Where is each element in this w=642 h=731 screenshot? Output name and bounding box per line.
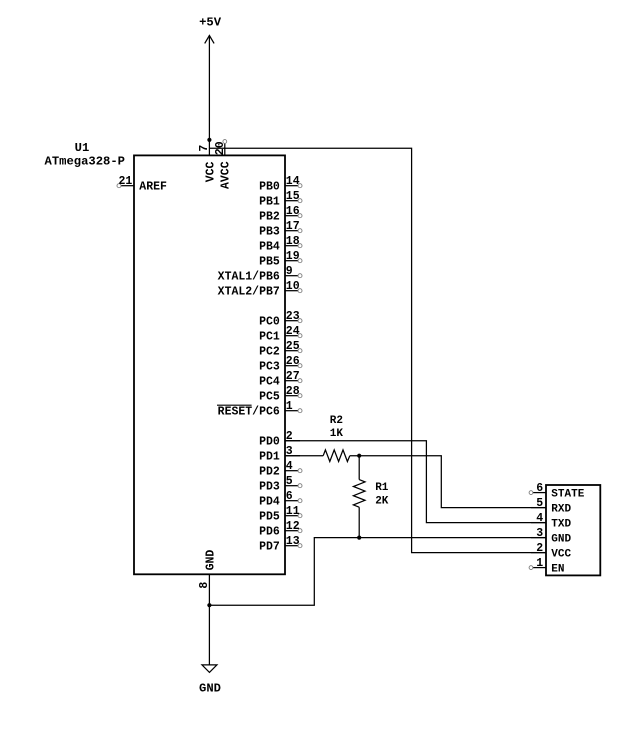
- svg-text:PD3: PD3: [259, 481, 280, 494]
- resistor R1 2K (vertical): [353, 456, 388, 538]
- svg-text:GND: GND: [551, 534, 571, 546]
- svg-text:PC2: PC2: [259, 346, 280, 359]
- pin 21 AREF (left side): [117, 175, 167, 194]
- pin 26 PC3 (right side): [259, 355, 302, 374]
- pin 9 XTAL1/PB6 (right side): [218, 265, 302, 284]
- pin 23 PC0 (right side): [259, 310, 302, 329]
- module pin 3 GND: [531, 527, 572, 546]
- svg-text:24: 24: [286, 325, 300, 338]
- svg-text:5: 5: [286, 475, 293, 488]
- pin 6 PD4 (right side): [259, 490, 302, 509]
- svg-text:XTAL1/PB6: XTAL1/PB6: [218, 271, 280, 284]
- svg-text:3: 3: [536, 527, 543, 540]
- svg-text:15: 15: [286, 190, 300, 203]
- svg-text:9: 9: [286, 265, 293, 278]
- svg-text:17: 17: [286, 220, 300, 233]
- svg-text:PC0: PC0: [259, 316, 280, 329]
- svg-text:R1: R1: [375, 482, 389, 494]
- svg-text:23: 23: [286, 310, 300, 323]
- svg-text:13: 13: [286, 535, 300, 548]
- pin 13 PD7 (right side): [259, 535, 302, 554]
- svg-text:STATE: STATE: [551, 489, 584, 501]
- svg-text:TXD: TXD: [551, 519, 571, 531]
- svg-text:GND: GND: [204, 550, 217, 571]
- svg-text:+5V: +5V: [199, 16, 222, 30]
- junction +5V node at VCC pin: [207, 138, 211, 142]
- svg-text:ATmega328-P: ATmega328-P: [45, 155, 125, 169]
- module pin 1 EN: [529, 557, 564, 576]
- svg-text:28: 28: [286, 385, 300, 398]
- svg-text:6: 6: [286, 490, 293, 503]
- svg-text:25: 25: [286, 340, 300, 353]
- svg-text:PD7: PD7: [259, 541, 280, 554]
- pin 27 PC4 (right side): [259, 370, 302, 389]
- ground symbol GND: [199, 665, 221, 695]
- wire PD0 pin 2 to module TXD pin 4: [285, 441, 546, 523]
- svg-text:PC3: PC3: [259, 361, 280, 374]
- pin 19 PB5 (right side): [259, 250, 302, 269]
- svg-text:EN: EN: [551, 564, 564, 576]
- svg-text:XTAL2/PB7: XTAL2/PB7: [218, 286, 280, 299]
- svg-text:1K: 1K: [330, 428, 344, 440]
- junction node R2-R1 divider: [357, 454, 361, 458]
- svg-text:5: 5: [536, 497, 543, 510]
- resistor R2 1K (horizontal): [323, 415, 350, 461]
- pin 24 PC1 (right side): [259, 325, 302, 344]
- svg-text:4: 4: [286, 460, 293, 473]
- svg-text:PB4: PB4: [259, 241, 280, 254]
- pin 11 PD5 (right side): [259, 505, 302, 524]
- pin 7 VCC (top side): [198, 145, 217, 183]
- pin 1 RESET/PC6 (right side): [217, 400, 302, 419]
- pin 14 PB0 (right side): [259, 175, 302, 194]
- pin 15 PB1 (right side): [259, 190, 302, 209]
- wire ground net: module GND pin 3 to U1 GND pin 8: [209, 538, 546, 606]
- module pin 4 TXD: [531, 512, 572, 531]
- pin 25 PC2 (right side): [259, 340, 302, 359]
- wire +5V node right and down to module VCC pin 2: [209, 148, 546, 552]
- svg-text:11: 11: [286, 505, 300, 518]
- svg-text:2K: 2K: [375, 495, 389, 507]
- power symbol +5V: [199, 16, 222, 63]
- svg-text:RESET/PC6: RESET/PC6: [218, 406, 280, 419]
- svg-text:PD1: PD1: [259, 451, 280, 464]
- pin 16 PB2 (right side): [259, 205, 302, 224]
- connector module body (STATE/RXD/TXD/GND/VCC/EN): [546, 485, 600, 575]
- svg-text:PD4: PD4: [259, 496, 280, 509]
- svg-text:4: 4: [536, 512, 543, 525]
- wire R2 output to module RXD pin 5: [350, 456, 546, 508]
- svg-text:AVCC: AVCC: [220, 161, 233, 189]
- svg-text:PB3: PB3: [259, 226, 280, 239]
- svg-text:1: 1: [286, 400, 293, 413]
- junction R1 bottom to ground wire: [357, 536, 361, 540]
- pin 2 PD0 (right side): [259, 430, 300, 449]
- svg-text:18: 18: [286, 235, 300, 248]
- pin 3 PD1 (right side): [259, 445, 300, 464]
- pin 12 PD6 (right side): [259, 520, 302, 539]
- svg-text:RXD: RXD: [551, 504, 571, 516]
- svg-text:PC1: PC1: [259, 331, 280, 344]
- svg-text:12: 12: [286, 520, 300, 533]
- pin 28 PC5 (right side): [259, 385, 302, 404]
- svg-text:PD2: PD2: [259, 466, 280, 479]
- svg-text:26: 26: [286, 355, 300, 368]
- svg-text:AREF: AREF: [139, 181, 167, 194]
- svg-text:PB1: PB1: [259, 196, 280, 209]
- wire PD1 pin 3 to resistor R2: [285, 455, 323, 457]
- pin 17 PB3 (right side): [259, 220, 302, 239]
- pin 10 XTAL2/PB7 (right side): [218, 280, 302, 299]
- wire +5V rail down to U1 VCC pin 7: [208, 63, 210, 155]
- svg-text:7: 7: [198, 145, 211, 152]
- svg-text:10: 10: [286, 280, 300, 293]
- module pin 2 VCC: [531, 542, 572, 561]
- svg-text:U1: U1: [75, 141, 90, 155]
- svg-text:VCC: VCC: [204, 161, 217, 182]
- wire U1 GND pin 8 down to ground symbol: [208, 574, 210, 665]
- svg-text:6: 6: [536, 482, 543, 495]
- svg-text:PC4: PC4: [259, 376, 280, 389]
- svg-text:14: 14: [286, 175, 300, 188]
- svg-text:PB0: PB0: [259, 181, 280, 194]
- svg-text:PC5: PC5: [259, 391, 280, 404]
- svg-text:21: 21: [118, 175, 132, 188]
- pin 5 PD3 (right side): [259, 475, 302, 494]
- module pin 5 RXD: [531, 497, 572, 516]
- pin 18 PB4 (right side): [259, 235, 302, 254]
- svg-text:PB5: PB5: [259, 256, 280, 269]
- junction ground node below pin 8: [207, 603, 211, 607]
- op IC U1 body ATmega328-P: [134, 155, 285, 574]
- pin 8 GND (bottom side): [198, 550, 218, 589]
- pin 20 AVCC (top side): [214, 140, 233, 189]
- pin 4 PD2 (right side): [259, 460, 302, 479]
- svg-text:20: 20: [214, 141, 227, 155]
- svg-text:27: 27: [286, 370, 300, 383]
- svg-text:PD5: PD5: [259, 511, 280, 524]
- svg-text:PD0: PD0: [259, 436, 280, 449]
- svg-text:GND: GND: [199, 681, 221, 695]
- svg-text:VCC: VCC: [551, 549, 571, 561]
- svg-text:PD6: PD6: [259, 526, 280, 539]
- svg-text:R2: R2: [330, 415, 343, 427]
- svg-text:2: 2: [536, 542, 543, 555]
- module pin 6 STATE: [529, 482, 585, 501]
- svg-text:PB2: PB2: [259, 211, 280, 224]
- svg-text:1: 1: [536, 557, 543, 570]
- svg-text:16: 16: [286, 205, 300, 218]
- svg-text:19: 19: [286, 250, 300, 263]
